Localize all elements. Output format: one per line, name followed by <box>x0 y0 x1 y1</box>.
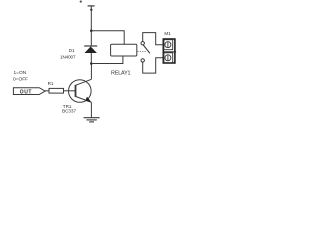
OUT input tag <box>13 88 45 96</box>
relay actuation dash-dot link <box>137 50 146 52</box>
diode D1 1N4007 <box>60 46 97 60</box>
terminal block M1 <box>163 31 177 63</box>
svg-text:1N4007: 1N4007 <box>60 55 76 60</box>
svg-text:1=ON: 1=ON <box>14 70 27 76</box>
relay RELAY1 coil <box>111 44 137 76</box>
relay contact (switch) <box>141 42 150 63</box>
resistor R1 <box>48 81 64 93</box>
wire node B to relay coil bottom <box>91 56 123 64</box>
svg-text:0=OFF: 0=OFF <box>13 77 28 83</box>
node A junction <box>90 29 93 32</box>
transistor TR1 BC337 <box>62 79 91 113</box>
input logic labels <box>13 70 28 82</box>
wire contact top to M1 pin 1 <box>143 33 163 45</box>
node B junction <box>90 62 93 65</box>
ground <box>84 118 100 122</box>
svg-text:M1: M1 <box>164 31 171 36</box>
wire emitter to ground <box>90 102 92 117</box>
svg-text:RELAY1: RELAY1 <box>111 70 131 76</box>
wire supply to node A <box>90 6 92 31</box>
svg-text:R1: R1 <box>48 81 54 86</box>
svg-text:D1: D1 <box>69 48 75 53</box>
wire contact bottom to M1 pin 2 <box>143 58 163 73</box>
wire collector to node B <box>90 64 92 80</box>
supply +V terminal <box>80 0 95 11</box>
wire diode anode to node B <box>90 53 92 64</box>
wire R1 to TR1 base <box>64 90 76 92</box>
wire node A to relay coil top <box>91 31 124 45</box>
svg-text:OUT: OUT <box>20 89 32 95</box>
wire OUT tag to resistor R1 <box>45 90 49 92</box>
svg-text:BC337: BC337 <box>62 109 76 114</box>
wire node A to diode cathode <box>90 31 92 46</box>
